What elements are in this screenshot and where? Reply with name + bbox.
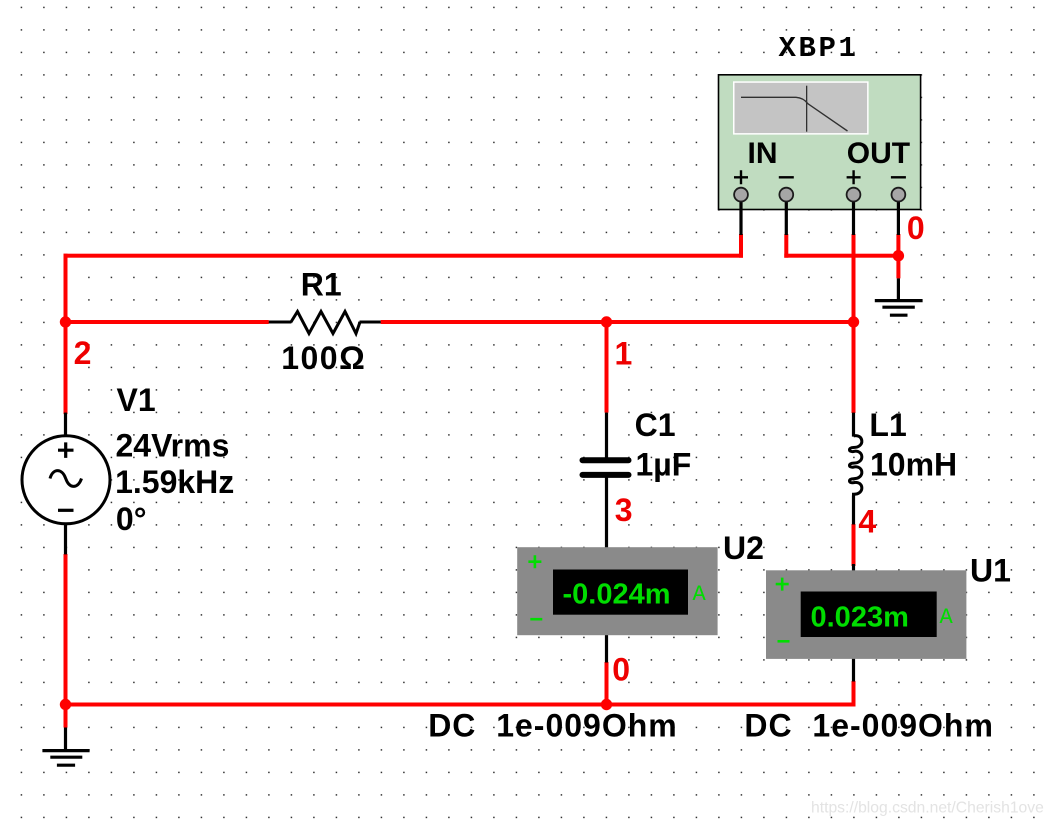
svg-text:100Ω: 100Ω [281, 340, 366, 376]
lead C1 bottom to U2 [605, 477, 608, 548]
wire V1 top vertical [64, 322, 68, 413]
XBP1 bode curve [741, 97, 848, 131]
ground at V1 stem [64, 728, 67, 751]
lead V1 top [64, 413, 67, 436]
voltage source V1 body [22, 436, 110, 524]
junction node 1 at C1 [601, 316, 612, 327]
XBP1 terminal stub IN+ [739, 195, 742, 235]
V1 sine symbol [50, 471, 82, 487]
ammeter U1 display [801, 592, 937, 638]
resistor R1 zigzag [291, 312, 360, 334]
inductor L1 coil [849, 436, 861, 496]
XBP1 cursor line [806, 86, 807, 132]
ammeter U2 body [517, 547, 717, 635]
XBP1 screen [735, 83, 868, 133]
svg-text:R1: R1 [301, 267, 342, 303]
ammeter U1 plus mark [776, 578, 789, 591]
ground at XBP1 bars [875, 301, 923, 316]
wire XBP1 IN+ vertical [739, 234, 743, 258]
junction node 1 at L1 [848, 316, 859, 327]
wire XBP1 OUT- to ground [896, 234, 900, 278]
wire node1 horizontal left segment [64, 320, 269, 324]
ammeter U2 minus mark [530, 618, 542, 621]
lead L1 bottom [852, 496, 855, 525]
svg-text:A: A [693, 582, 707, 607]
wire XBP1 IN- vertical [784, 234, 788, 258]
ground at XBP1 stem [897, 278, 900, 300]
svg-text:4: 4 [858, 504, 876, 540]
svg-text:10mH: 10mH [870, 446, 957, 482]
junction node 2 [60, 316, 71, 327]
svg-text:1: 1 [615, 335, 633, 371]
XBP1 terminal OUT- [892, 188, 906, 202]
svg-text:XBP1: XBP1 [779, 32, 859, 65]
ammeter U1 minus mark [778, 640, 790, 643]
svg-text:OUT: OUT [847, 137, 910, 170]
junction node 0 at XBP1 OUT- [893, 250, 904, 261]
svg-text:0.023m: 0.023m [811, 602, 909, 634]
svg-text:0°: 0° [116, 501, 147, 537]
wire node0 horizontal (IN- to OUT-) [784, 254, 900, 258]
wire node2 top horizontal (V1 to XBP1 IN+) [64, 254, 744, 258]
XBP1 terminal OUT+ [847, 188, 861, 202]
wire node1 horizontal right segment [381, 320, 856, 324]
V1 minus sign [58, 509, 74, 512]
lead U1 bottom stub [852, 659, 855, 682]
svg-text:U2: U2 [723, 530, 764, 566]
svg-text:1.59kHz: 1.59kHz [115, 464, 234, 500]
XBP1 terminal IN- [779, 188, 793, 202]
svg-text:24Vrms: 24Vrms [116, 427, 230, 463]
XBP1 IN+ plus mark [734, 170, 748, 184]
wire L1 to U1 segment [852, 524, 856, 566]
XBP1 terminal stub OUT+ [852, 195, 855, 235]
wire node2 top-left vertical [64, 254, 68, 414]
svg-text:A: A [940, 605, 954, 630]
XBP1 IN- minus mark [779, 176, 794, 178]
lead U2 bottom stub [605, 635, 608, 663]
ground at V1 bars [42, 751, 89, 766]
ammeter U2 display [553, 570, 688, 615]
bode plotter XBP1 body [719, 75, 921, 210]
XBP1 terminal IN+ [734, 188, 748, 202]
ammeter U2 plus mark [528, 555, 541, 568]
lead R1 right [360, 321, 381, 324]
svg-text:L1: L1 [869, 407, 906, 443]
wire U1 bottom vertical [852, 681, 856, 705]
junction node 0 at V1 bottom [60, 699, 71, 710]
svg-text:0: 0 [907, 210, 925, 246]
XBP1 terminal stub IN- [785, 195, 788, 235]
svg-text:IN: IN [748, 137, 778, 170]
lead U1 top stub [852, 564, 855, 571]
svg-text:3: 3 [615, 492, 633, 528]
svg-text:C1: C1 [635, 407, 676, 443]
lead C1 top [605, 413, 608, 459]
lead R1 left [269, 321, 291, 324]
capacitor C1 top plate [583, 457, 629, 463]
XBP1 screen frame [733, 81, 869, 134]
wire ground left vertical [64, 705, 68, 728]
svg-text:DC 1e-009Ohm: DC 1e-009Ohm [744, 707, 994, 743]
wire U2 bottom vertical [605, 662, 609, 705]
XBP1 OUT+ plus mark [847, 170, 861, 184]
V1 plus sign [58, 442, 74, 458]
XBP1 OUT- minus mark [891, 176, 906, 178]
svg-text:V1: V1 [117, 382, 156, 418]
lead L1 top [852, 413, 855, 437]
svg-text:DC 1e-009Ohm: DC 1e-009Ohm [428, 707, 678, 743]
svg-text:https://blog.csdn.net/Cherish1: https://blog.csdn.net/Cherish1ove [811, 800, 1044, 817]
wire V1 bottom vertical [64, 554, 68, 705]
wire bottom rail horizontal [64, 703, 856, 707]
svg-text:U1: U1 [970, 552, 1011, 588]
XBP1 terminal stub OUT- [897, 195, 900, 235]
svg-text:0: 0 [612, 652, 630, 688]
svg-text:1µF: 1µF [636, 447, 692, 483]
lead V1 bottom [64, 524, 67, 555]
junction node 0 at U2 bottom [601, 699, 612, 710]
wire C1 top vertical [605, 322, 609, 413]
capacitor C1 bottom plate [583, 472, 629, 478]
svg-text:2: 2 [74, 335, 92, 371]
svg-text:-0.024m: -0.024m [563, 579, 671, 611]
ammeter U1 body [766, 570, 966, 659]
wire XBP1 OUT+ vertical (to node 1) [852, 234, 856, 413]
